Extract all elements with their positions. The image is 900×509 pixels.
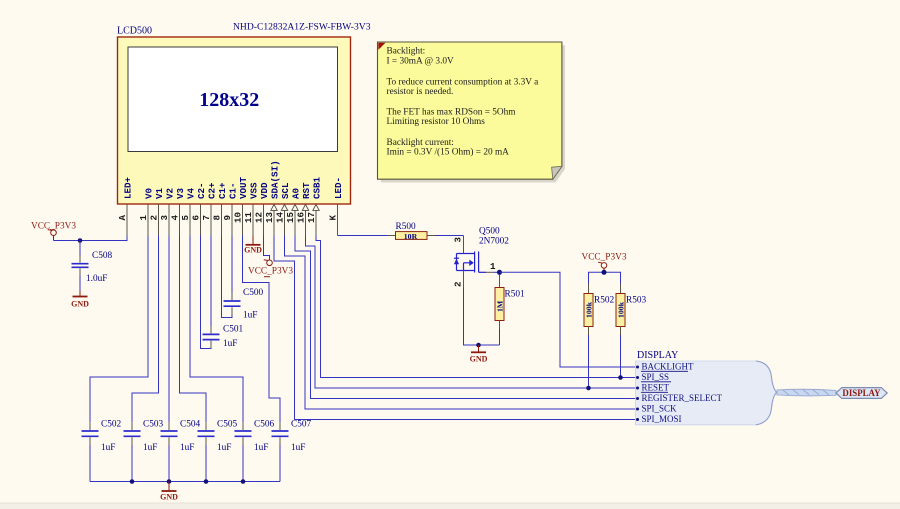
wire C500 bottom to pin8 C1+ <box>222 236 233 318</box>
svg-text:C1-: C1- <box>227 182 238 199</box>
ground below capacitor bank <box>160 482 178 502</box>
resistor R501 1M <box>495 275 525 346</box>
svg-text:V2: V2 <box>164 188 175 199</box>
pin 7 C2+ <box>201 182 218 236</box>
svg-text:LED+: LED+ <box>122 176 133 199</box>
pin 17 CSB1 input arrow <box>306 176 323 235</box>
power port VCC_P3V3 at pin12 VDD <box>248 236 293 277</box>
pin 15 A0 input arrow <box>285 188 302 236</box>
pin 14 SCL input arrow <box>274 182 291 236</box>
capacitor C508 <box>72 241 113 292</box>
svg-text:The FET has max RDSon = 5Ohm: The FET has max RDSon = 5Ohm <box>387 108 517 118</box>
ground at pin11 VSS <box>244 236 262 255</box>
svg-text:3: 3 <box>453 237 464 243</box>
svg-text:7: 7 <box>201 215 212 221</box>
svg-text:Imin = 0.3V /(15 Ohm) = 20 mA: Imin = 0.3V /(15 Ohm) = 20 mA <box>387 147 510 158</box>
svg-text:C508: C508 <box>92 251 112 261</box>
wire pin7 C2+ to C501 <box>210 236 212 327</box>
svg-text:C507: C507 <box>291 420 311 430</box>
pin 4 V3 <box>169 187 186 235</box>
svg-text:2: 2 <box>148 215 159 221</box>
svg-text:1uF: 1uF <box>180 443 194 453</box>
svg-text:5: 5 <box>180 215 191 221</box>
harness entry SPI_SS <box>636 372 671 382</box>
pin 10 VOUT <box>232 176 249 235</box>
svg-text:1.0uF: 1.0uF <box>86 274 107 284</box>
svg-text:K: K <box>327 215 338 221</box>
svg-text:8: 8 <box>211 215 222 221</box>
svg-text:1uF: 1uF <box>254 443 268 453</box>
svg-text:12: 12 <box>253 212 264 223</box>
svg-text:9: 9 <box>222 215 233 221</box>
svg-text:2: 2 <box>453 281 464 287</box>
svg-text:1uF: 1uF <box>243 311 257 321</box>
svg-text:R503: R503 <box>626 296 646 306</box>
svg-text:10R: 10R <box>404 232 418 241</box>
svg-text:REGISTER_SELECT: REGISTER_SELECT <box>642 393 723 403</box>
svg-text:15: 15 <box>285 211 296 223</box>
svg-text:4: 4 <box>169 215 180 221</box>
wire pin15 A0 to harness REGISTER_SELECT <box>295 236 636 399</box>
resistor R503 100k <box>616 284 646 336</box>
svg-text:C500: C500 <box>243 288 263 298</box>
ground below Q500 <box>470 345 488 364</box>
pin 16 RST input arrow <box>295 182 312 236</box>
wire pin K LED- to R500 <box>338 235 388 237</box>
wire R502 bottom to RESET <box>588 335 590 388</box>
svg-text:17: 17 <box>306 212 317 223</box>
harness entry REGISTER_SELECT <box>636 393 723 403</box>
svg-text:A0: A0 <box>290 188 301 199</box>
node junction R503 SPI_SS <box>618 375 623 380</box>
wire pin16 RST to harness RESET <box>306 236 636 389</box>
svg-text:I = 30mA @ 3.0V: I = 30mA @ 3.0V <box>387 56 455 66</box>
pin 1 V0 <box>138 188 155 236</box>
svg-text:R502: R502 <box>594 296 614 306</box>
node junction Q500 gate node 1 <box>497 270 502 275</box>
svg-text:LED-: LED- <box>333 177 344 199</box>
capacitor C501 <box>203 325 244 350</box>
svg-text:C505: C505 <box>217 420 237 430</box>
svg-text:14: 14 <box>274 211 285 223</box>
svg-text:C2-: C2- <box>196 182 207 199</box>
svg-text:To reduce current consumption: To reduce current consumption at 3.3V a <box>387 78 539 88</box>
svg-text:Q500: Q500 <box>479 227 500 237</box>
svg-text:1uF: 1uF <box>217 443 231 453</box>
wire pin5 V4 to C506 <box>190 236 243 423</box>
sheet bottom edge <box>0 503 900 509</box>
svg-text:11: 11 <box>243 211 254 223</box>
svg-text:V0: V0 <box>143 188 154 199</box>
svg-text:resistor is needed.: resistor is needed. <box>387 87 454 97</box>
wire pin10 VOUT to C507 <box>243 236 281 423</box>
node junction at side ground <box>476 343 481 348</box>
wire C501 bottom to pin6 C2- <box>201 236 212 349</box>
svg-text:C503: C503 <box>143 420 163 430</box>
svg-text:2N7002: 2N7002 <box>479 237 509 247</box>
wire pin3 V2 to C504 <box>168 236 170 423</box>
svg-text:1uF: 1uF <box>101 443 115 453</box>
wire pin4 V3 to C505 <box>180 236 207 423</box>
resistor R502 100k <box>584 284 614 336</box>
capacitor C503 <box>124 420 164 482</box>
wire pin17 CSB1 to harness SPI_SS <box>316 236 636 378</box>
harness entry RESET <box>636 383 670 393</box>
svg-text:VCC_P3V3: VCC_P3V3 <box>248 267 293 277</box>
harness entry BACKLIGHT <box>636 362 694 372</box>
wire VCC split to R502 and R503 <box>589 272 621 293</box>
wire VCC_P3V3 to pin A LED+ <box>54 236 128 241</box>
svg-text:16: 16 <box>295 212 306 223</box>
svg-text:C2+: C2+ <box>206 182 217 199</box>
svg-text:VOUT: VOUT <box>238 176 249 199</box>
wire pin1 V0 to C502 <box>90 236 148 423</box>
node junction R502 RESET <box>586 386 591 391</box>
svg-text:GND: GND <box>71 300 89 309</box>
wire pin9 C1- to C500 <box>231 236 233 293</box>
svg-text:6: 6 <box>190 215 201 221</box>
svg-text:C1+: C1+ <box>217 182 228 199</box>
svg-text:Backlight:: Backlight: <box>387 47 426 57</box>
svg-text:1uF: 1uF <box>143 443 157 453</box>
svg-text:1M: 1M <box>496 300 505 312</box>
power port VCC_P3V3 top left <box>31 222 76 241</box>
svg-text:LCD500: LCD500 <box>117 26 152 37</box>
wire Q500 source to ground rail <box>464 288 500 346</box>
svg-text:SPI_MOSI: SPI_MOSI <box>642 414 682 424</box>
wire pin14 SCL to harness SPI_SCK <box>285 236 636 410</box>
svg-text:C502: C502 <box>101 420 121 430</box>
wire R500 to Q500 drain <box>435 235 464 237</box>
pin 5 V4 <box>180 187 197 235</box>
svg-text:CSB1: CSB1 <box>311 176 322 199</box>
harness entry SPI_SCK <box>636 404 677 414</box>
svg-text:SPI_SS: SPI_SS <box>642 372 670 382</box>
pin K LED- <box>327 177 344 236</box>
svg-text:C504: C504 <box>180 420 200 430</box>
wire pin13 SDA(SI) to harness SPI_MOSI <box>274 236 636 420</box>
svg-text:V1: V1 <box>154 187 165 199</box>
svg-text:VSS: VSS <box>248 182 259 199</box>
harness cable to DISPLAY port <box>777 389 836 396</box>
svg-text:R500: R500 <box>396 222 416 232</box>
LCD module LCD500 body <box>118 37 351 204</box>
power port VCC_P3V3 above R502 R503 <box>582 253 627 273</box>
pin A LED+ <box>117 176 134 235</box>
svg-text:C506: C506 <box>254 420 274 430</box>
pin 9 C1- <box>222 182 239 235</box>
svg-text:128x32: 128x32 <box>199 89 259 111</box>
svg-text:A: A <box>117 215 128 221</box>
capacitor C502 <box>82 420 122 482</box>
pin 8 C1+ <box>211 182 228 236</box>
svg-text:BACKLIGHT: BACKLIGHT <box>642 362 694 372</box>
port DISPLAY <box>836 388 887 399</box>
node junction VCC split <box>602 270 607 275</box>
wire Q500 gate to harness BACKLIGHT <box>500 272 636 367</box>
resistor R500 10R <box>388 222 436 241</box>
svg-text:VDD: VDD <box>259 182 270 199</box>
node junction at C508 tap <box>78 238 83 243</box>
svg-text:10: 10 <box>232 212 243 223</box>
svg-text:100k: 100k <box>617 301 626 318</box>
svg-text:SDA(SI): SDA(SI) <box>269 160 280 199</box>
svg-text:1uF: 1uF <box>223 339 237 349</box>
svg-text:DISPLAY: DISPLAY <box>842 388 881 398</box>
svg-text:Limiting resistor 10 Ohms: Limiting resistor 10 Ohms <box>387 117 486 127</box>
svg-text:DISPLAY: DISPLAY <box>637 350 678 361</box>
capacitor C505 <box>198 420 238 482</box>
harness entry SPI_MOSI <box>636 414 682 424</box>
svg-text:1: 1 <box>490 261 496 272</box>
node junctions on ground rail <box>130 479 246 484</box>
pin 11 VSS <box>243 182 259 236</box>
capacitor C504 <box>161 420 201 482</box>
capacitor C506 <box>235 420 275 482</box>
wire ground rail under capacitor bank <box>90 481 280 483</box>
svg-text:GND: GND <box>470 355 488 364</box>
pin 12 VDD <box>253 182 270 236</box>
ground below C508 <box>71 291 89 309</box>
pin 13 SDA(SI) input arrow <box>264 160 281 235</box>
harness DISPLAY signal bundle <box>636 350 777 425</box>
pin 6 C2- <box>190 182 207 235</box>
svg-text:GND: GND <box>160 493 178 502</box>
svg-text:V3: V3 <box>175 187 186 199</box>
capacitor C507 <box>272 420 312 482</box>
svg-text:1: 1 <box>138 215 149 221</box>
svg-text:100k: 100k <box>585 301 594 318</box>
wire R503 bottom to SPI_SS <box>620 335 622 378</box>
wire pin2 V1 to C503 <box>132 236 159 423</box>
svg-text:RESET: RESET <box>642 383 670 393</box>
svg-text:13: 13 <box>264 211 275 223</box>
svg-text:RST: RST <box>301 182 312 199</box>
note backlight sticky note <box>378 42 566 183</box>
svg-text:R501: R501 <box>505 290 525 300</box>
svg-text:C501: C501 <box>223 325 243 335</box>
svg-text:NHD-C12832A1Z-FSW-FBW-3V3: NHD-C12832A1Z-FSW-FBW-3V3 <box>233 22 371 33</box>
capacitor C500 <box>224 288 264 321</box>
pin 3 V2 <box>159 188 176 236</box>
svg-text:1uF: 1uF <box>291 443 305 453</box>
svg-text:V4: V4 <box>185 187 196 199</box>
svg-text:Backlight current:: Backlight current: <box>387 138 454 148</box>
svg-text:VCC_P3V3: VCC_P3V3 <box>582 253 627 263</box>
svg-text:SCL: SCL <box>280 182 291 199</box>
pin 2 V1 <box>148 187 165 235</box>
svg-text:SPI_SCK: SPI_SCK <box>642 404 678 414</box>
transistor Q500 2N7002 <box>453 227 510 288</box>
svg-text:GND: GND <box>244 246 262 255</box>
svg-text:3: 3 <box>159 215 170 221</box>
